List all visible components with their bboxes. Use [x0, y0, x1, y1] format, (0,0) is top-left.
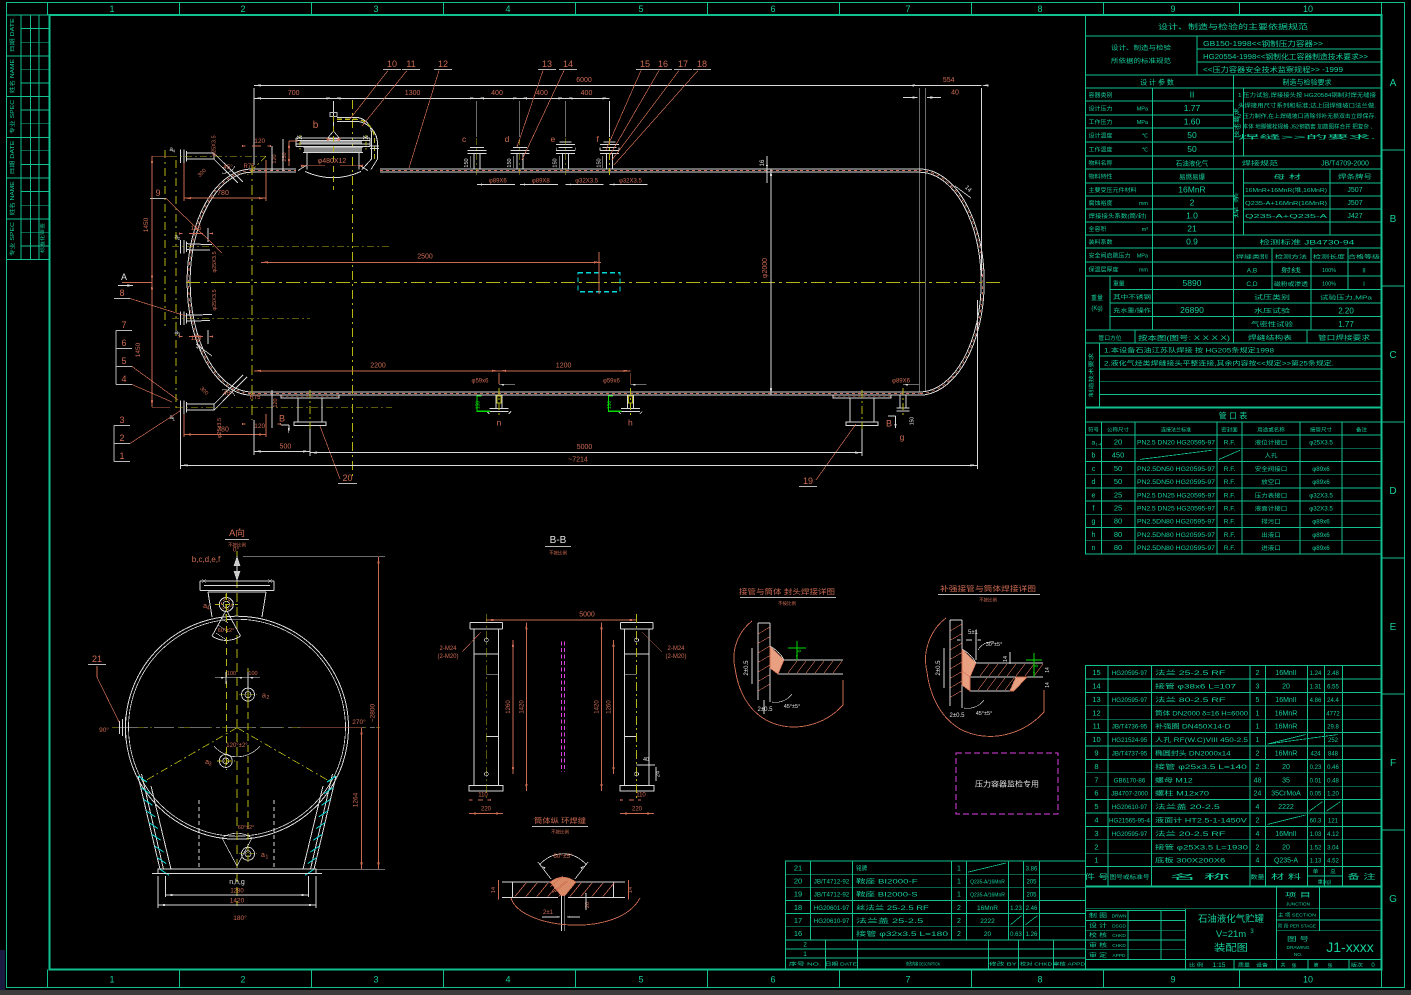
svg-text:f: f: [1093, 506, 1095, 513]
svg-text:液面计接口: 液面计接口: [1255, 505, 1288, 513]
svg-text:50: 50: [1114, 464, 1122, 473]
svg-text:1: 1: [1256, 710, 1260, 717]
svg-text:400: 400: [536, 90, 548, 97]
svg-text:J507: J507: [1347, 200, 1362, 207]
svg-text:JB/T4737-95: JB/T4737-95: [1112, 751, 1148, 758]
A-view: vessel circle: [126, 616, 349, 839]
left head nozzle a1: [180, 401, 182, 415]
svg-text:14: 14: [1045, 682, 1051, 688]
svg-text:℃: ℃: [1142, 134, 1149, 140]
B-B: magenta centerline: [560, 642, 562, 772]
svg-text:阶 段 PER STAGE: 阶 段 PER STAGE: [1278, 923, 1316, 930]
svg-text:Q235-A: Q235-A: [1274, 858, 1298, 865]
svg-text:CHKD: CHKD: [1112, 943, 1126, 949]
svg-text:重量: 重量: [1113, 280, 1125, 288]
svg-text:按本图(图号: X X X X): 按本图(图号: X X X X): [1138, 333, 1230, 342]
svg-text:物料特性: 物料特性: [1089, 173, 1113, 181]
svg-text:1: 1: [1256, 737, 1260, 744]
svg-text:合格等级: 合格等级: [1348, 254, 1380, 261]
spec table: weight group: [1110, 289, 1234, 291]
svg-text:2-M24: 2-M24: [667, 646, 685, 652]
svg-text:JUNCTION: JUNCTION: [1286, 902, 1311, 908]
svg-text:石油液化气: 石油液化气: [1176, 159, 1209, 168]
A-view: 60 deg wedge top: [212, 610, 226, 636]
A-view: 100/100 dims: [215, 677, 260, 679]
svg-text:φ25X3.5: φ25X3.5: [212, 290, 218, 311]
svg-text:1280: 1280: [230, 889, 244, 895]
svg-text:0°: 0°: [233, 546, 240, 554]
svg-text:0.46: 0.46: [1327, 765, 1339, 771]
svg-text:120°±2°: 120°±2°: [226, 743, 248, 749]
svg-text:5: 5: [1256, 697, 1260, 704]
svg-text:1.31: 1.31: [1310, 685, 1322, 691]
svg-text:备注: 备注: [1356, 427, 1367, 434]
top nozzle size leaders: [477, 184, 515, 186]
svg-text:8: 8: [1094, 762, 1098, 771]
svg-text:检测长度: 检测长度: [1313, 254, 1345, 261]
svg-text:不按比例: 不按比例: [979, 597, 997, 604]
pressure vessel inspection stamp box: [956, 753, 1058, 814]
svg-text:法兰盖 25-2.5: 法兰盖 25-2.5: [856, 917, 924, 925]
svg-text:气密性试验: 气密性试验: [1251, 321, 1293, 329]
svg-text:修改 BY: 修改 BY: [989, 961, 1018, 968]
svg-text:放空口: 放空口: [1261, 478, 1281, 486]
svg-text:焊缝>>的要求.: 焊缝>>的要求.: [1238, 133, 1376, 141]
svg-text:设 计: 设 计: [1089, 921, 1108, 929]
svg-text:图号或标准号: 图号或标准号: [1110, 873, 1150, 881]
manhole davit: [333, 112, 335, 131]
svg-text:姓名 NAME: 姓名 NAME: [8, 58, 16, 93]
svg-text:13: 13: [542, 59, 552, 69]
A-view: manhole on top: [208, 592, 212, 617]
svg-text:(2-M20): (2-M20): [437, 654, 458, 660]
svg-text:φ32X3.5: φ32X3.5: [1309, 506, 1333, 513]
svg-text:270°: 270°: [352, 718, 366, 726]
dim 5000 bottom: [310, 452, 862, 454]
svg-text:16MnR: 16MnR: [977, 905, 998, 912]
svg-text:C: C: [1389, 350, 1396, 361]
svg-text:17: 17: [678, 59, 688, 69]
svg-text:R.F.: R.F.: [1224, 492, 1236, 499]
svg-text:HG20595-97: HG20595-97: [1112, 831, 1148, 838]
svg-text:120: 120: [272, 154, 278, 163]
dim ~7214: [181, 464, 978, 466]
spec table: technical requirement notes: [1085, 343, 1087, 407]
svg-text:审 定: 审 定: [1089, 951, 1108, 959]
svg-text:3.04: 3.04: [1327, 845, 1339, 851]
svg-text:HG21524-95: HG21524-95: [1112, 737, 1148, 744]
detail 1: shell plate horizontal: [784, 659, 843, 661]
svg-text:PN2.5DN50 HG20595-97: PN2.5DN50 HG20595-97: [1137, 479, 1216, 486]
svg-text:120: 120: [254, 138, 265, 145]
svg-text:焊接接头系数(筒/封): 焊接接头系数(筒/封): [1089, 212, 1147, 220]
svg-text:法兰盖 20-2.5: 法兰盖 20-2.5: [1155, 803, 1221, 811]
svg-text:总: 总: [1330, 868, 1336, 876]
top nozzles c,d,e,f: [473, 154, 475, 170]
svg-text:60.3: 60.3: [1310, 819, 1322, 825]
svg-text:水压试验: 水压试验: [1254, 307, 1290, 315]
svg-text:c: c: [1092, 466, 1096, 473]
svg-text:补强圈 DN450X14-D: 补强圈 DN450X14-D: [1155, 723, 1231, 731]
top/bottom number strips: [47, 3, 49, 16]
svg-text:1: 1: [109, 4, 114, 14]
svg-text:椭圆封头 DN2000x14: 椭圆封头 DN2000x14: [1155, 750, 1231, 758]
title block: [1086, 886, 1382, 970]
svg-text:材 料: 材 料: [1271, 872, 1301, 881]
svg-text:连接法兰标准: 连接法兰标准: [1161, 427, 1191, 434]
svg-text:3.86: 3.86: [1026, 866, 1038, 872]
svg-text:B: B: [886, 419, 892, 429]
svg-text:日期 DATE: 日期 DATE: [9, 18, 16, 53]
svg-text:2.48: 2.48: [1327, 671, 1339, 677]
svg-text:制造与检验要求: 制造与检验要求: [1283, 78, 1332, 87]
svg-text:丝法兰 25-2.5 RF: 丝法兰 25-2.5 RF: [856, 904, 929, 912]
svg-text:审 核: 审 核: [1089, 941, 1108, 949]
svg-text:2: 2: [1256, 751, 1260, 758]
svg-text:全容积: 全容积: [1089, 225, 1107, 233]
svg-text:接管尺寸: 接管尺寸: [1310, 427, 1332, 434]
svg-text:φ89x6: φ89x6: [1312, 545, 1330, 552]
svg-text:12: 12: [438, 59, 448, 69]
svg-text:8: 8: [1034, 664, 1040, 667]
svg-text:1: 1: [957, 879, 961, 886]
svg-text:φ480X12: φ480X12: [318, 158, 347, 165]
svg-text:φ25X3.5: φ25X3.5: [212, 136, 218, 157]
svg-text:比 例: 比 例: [1189, 962, 1203, 969]
svg-text:底板 300X200X6: 底板 300X200X6: [1155, 857, 1226, 865]
svg-text:110: 110: [478, 793, 488, 799]
svg-text:5000: 5000: [577, 444, 593, 451]
svg-text:150: 150: [464, 158, 470, 167]
svg-text:16MnR: 16MnR: [1275, 710, 1298, 717]
svg-text:序号 NO.: 序号 NO.: [789, 961, 821, 968]
svg-text:7: 7: [905, 975, 910, 985]
svg-text:2 压力制作,在上焊缝坡口清除邻补无损双击立即保存.: 2 压力制作,在上焊缝坡口清除邻补无损双击立即保存.: [1238, 112, 1376, 120]
svg-text:25: 25: [1114, 504, 1122, 513]
svg-text:0.9: 0.9: [1186, 237, 1198, 247]
svg-text:HG20595-97: HG20595-97: [1112, 670, 1148, 677]
svg-text:件 号: 件 号: [1085, 872, 1109, 881]
svg-text:mm: mm: [1139, 201, 1149, 207]
svg-text:1: 1: [957, 865, 961, 872]
svg-text:121: 121: [1328, 819, 1339, 825]
svg-text:单: 单: [1313, 868, 1319, 876]
svg-text:h: h: [1092, 532, 1096, 539]
title block: bottom scale row: [1186, 959, 1382, 961]
svg-text:1.0: 1.0: [1186, 211, 1198, 221]
svg-text:13: 13: [1092, 695, 1100, 704]
right zone letter column: [1404, 3, 1406, 988]
svg-text:21: 21: [92, 654, 102, 664]
svg-text:压力容器监检专用: 压力容器监检专用: [975, 779, 1039, 789]
svg-text:100: 100: [248, 671, 257, 677]
main view: left elliptical head: [187, 169, 252, 395]
svg-text:24.4: 24.4: [1327, 698, 1339, 704]
dims 1450 x2: [151, 156, 153, 407]
svg-text:100%: 100%: [1322, 268, 1336, 274]
svg-text:JB/T4709-2000: JB/T4709-2000: [1321, 161, 1369, 168]
svg-text:设计、制造与检验: 设计、制造与检验: [1111, 44, 1171, 52]
svg-text:PN2.5DN80 HG20595-97: PN2.5DN80 HG20595-97: [1137, 545, 1216, 552]
svg-text:1.26: 1.26: [1026, 932, 1038, 938]
svg-text:2: 2: [1256, 764, 1260, 771]
svg-text:R75: R75: [243, 164, 255, 170]
B-B: dim 5000: [486, 619, 636, 621]
right bottom nozzle g: [899, 395, 901, 408]
svg-text:6.55: 6.55: [1327, 685, 1339, 691]
svg-text:φ89x6: φ89x6: [1312, 532, 1330, 539]
svg-text:0.48: 0.48: [1327, 778, 1339, 784]
svg-text:1: 1: [1256, 724, 1260, 731]
svg-text:5: 5: [638, 4, 643, 14]
svg-text:~7214: ~7214: [568, 457, 588, 464]
svg-text:25: 25: [1114, 490, 1122, 499]
svg-text:筒体 DN2000 δ=16 H=6000: 筒体 DN2000 δ=16 H=6000: [1155, 709, 1249, 717]
svg-text:c: c: [462, 134, 467, 144]
detail 1: nozzle wall vertical: [757, 623, 759, 700]
svg-text:d: d: [1092, 479, 1096, 486]
svg-text:2222: 2222: [980, 918, 995, 925]
svg-text:磁粉或渗透: 磁粉或渗透: [1274, 280, 1309, 288]
svg-text:R.F.: R.F.: [1224, 439, 1236, 446]
svg-text:安全阀接口: 安全阀接口: [1255, 465, 1288, 473]
bottom-center BOM (items 21..16): [786, 861, 1086, 940]
A-view: a2 nozzle: [242, 688, 255, 701]
A-view: 60 deg wedge bottom: [222, 838, 237, 866]
svg-text:3: 3: [373, 4, 378, 14]
svg-text:A向: A向: [229, 527, 245, 538]
svg-text:50: 50: [1187, 144, 1197, 154]
svg-text:HG20610-97: HG20610-97: [814, 918, 850, 925]
A-view: 120deg radial lines: [141, 728, 238, 784]
svg-text:4.12: 4.12: [1327, 832, 1339, 838]
svg-text:16: 16: [794, 929, 802, 938]
svg-text:法兰 80-2.5 RF: 法兰 80-2.5 RF: [1155, 696, 1226, 704]
svg-text:3: 3: [1094, 829, 1098, 838]
svg-text:校 核: 校 核: [1089, 931, 1108, 939]
svg-text:1.77: 1.77: [1338, 320, 1354, 329]
svg-text:℃: ℃: [1142, 148, 1149, 154]
spec table: section headers: [1086, 87, 1382, 89]
signature table (top-left): [7, 15, 50, 260]
svg-text:1:15: 1:15: [1213, 962, 1226, 969]
weld detail: root gap and backing: [561, 896, 563, 932]
detail 2: nozzle wall: [949, 620, 951, 706]
svg-text:母 材: 母 材: [1273, 173, 1301, 181]
svg-text:1 压力试验,焊接接头按 HG20584钢制对焊无缝接: 1 压力试验,焊接接头按 HG20584钢制对焊无缝接: [1238, 91, 1377, 99]
A-view: anchor bolt dashed lines: [198, 800, 200, 869]
svg-text:2: 2: [240, 4, 245, 14]
svg-text:用途或名称: 用途或名称: [1257, 427, 1285, 434]
svg-text:APPD: APPD: [1112, 953, 1126, 959]
svg-text:2: 2: [1256, 844, 1260, 851]
main view: girth seam lines at right head: [918, 88, 920, 392]
svg-text:日期 DATE: 日期 DATE: [825, 962, 857, 968]
svg-text:φ89X8: φ89X8: [532, 179, 551, 185]
svg-text:容器类别: 容器类别: [1089, 91, 1113, 99]
svg-text:110: 110: [636, 793, 646, 799]
svg-text:50: 50: [1114, 477, 1122, 486]
svg-text:3 本体 地脚螺栓规格 J52钢筋套 加筋图样合并 把复: 3 本体 地脚螺栓规格 J52钢筋套 加筋图样合并 把复杂 、: [1238, 123, 1376, 131]
svg-text:80: 80: [1114, 517, 1122, 526]
svg-text:150: 150: [607, 401, 613, 410]
revision table: [786, 940, 1086, 970]
A-view: base plate: [158, 869, 316, 874]
bottom nozzle n: [495, 395, 497, 408]
svg-text:700: 700: [288, 90, 300, 97]
main view: horizontal centerline: [186, 282, 1000, 284]
svg-text:主 项 SECTION: 主 项 SECTION: [1278, 912, 1317, 919]
svg-text:φ32X3.5: φ32X3.5: [1309, 492, 1333, 499]
svg-text:Q235-A+16MnR(16MnR): Q235-A+16MnR(16MnR): [1245, 201, 1327, 207]
left head nozzle a3: [180, 312, 182, 326]
svg-text:接管 φ38x6 L=107: 接管 φ38x6 L=107: [1155, 683, 1237, 691]
svg-text:2: 2: [1094, 842, 1098, 851]
svg-text:10: 10: [1092, 735, 1100, 744]
svg-text:205: 205: [1026, 880, 1037, 886]
svg-text:接管 φ25x3.5 L=140: 接管 φ25x3.5 L=140: [1155, 763, 1248, 771]
svg-text:20: 20: [1282, 684, 1290, 691]
svg-text:8: 8: [1037, 975, 1042, 985]
spec table: nozzle orientation row: [1086, 342, 1382, 344]
svg-text:19: 19: [794, 890, 802, 899]
B-B: right saddle plate: [625, 629, 650, 785]
svg-text:进液口: 进液口: [1261, 544, 1281, 552]
svg-text:220: 220: [481, 807, 492, 813]
svg-text:2: 2: [1256, 818, 1260, 825]
svg-text:4772: 4772: [1326, 711, 1340, 717]
svg-text:60°±2°: 60°±2°: [238, 825, 255, 831]
svg-text:4: 4: [207, 606, 210, 612]
svg-text:0.01: 0.01: [1310, 778, 1322, 784]
svg-text:(2-M20): (2-M20): [665, 654, 686, 660]
detail 2: shell + pad plates: [976, 662, 1043, 664]
svg-text:安全阀启跳压力: 安全阀启跳压力: [1089, 252, 1131, 260]
spec table: electrode sub-table: [1243, 169, 1245, 235]
svg-text:14: 14: [563, 59, 573, 69]
svg-text:26890: 26890: [1180, 305, 1204, 315]
svg-text:压力表接口: 压力表接口: [1255, 491, 1288, 499]
main view: vertical aux centerline: [352, 100, 354, 478]
svg-text:21: 21: [1187, 224, 1197, 234]
svg-text:1-4: 1-4: [1096, 441, 1103, 446]
svg-text:9: 9: [1170, 4, 1175, 14]
manhole vent pipe: [337, 117, 372, 159]
svg-text:1300: 1300: [405, 90, 421, 97]
svg-text:鞍座 BI2000-S: 鞍座 BI2000-S: [856, 891, 918, 899]
svg-text:液面计 HT2.5-1-1450V: 液面计 HT2.5-1-1450V: [1155, 817, 1248, 825]
B-B: vertical dims left: [512, 640, 514, 774]
top dimension row2: 700/1300/400s: [254, 97, 334, 99]
svg-text:C,D: C,D: [1246, 281, 1258, 288]
spec table: design parameter rows: [1086, 100, 1234, 102]
svg-text:HG20610-97: HG20610-97: [1112, 804, 1148, 811]
svg-text:2500: 2500: [417, 254, 433, 261]
svg-text:出液口: 出液口: [1261, 531, 1281, 539]
svg-text:4: 4: [505, 975, 510, 985]
svg-text:5890: 5890: [1183, 278, 1202, 288]
svg-text:g: g: [1092, 519, 1096, 526]
svg-text:80: 80: [1114, 530, 1122, 539]
svg-text:424: 424: [1310, 752, 1321, 758]
svg-text:~2800: ~2800: [370, 703, 377, 722]
svg-text:符号: 符号: [1088, 427, 1099, 434]
A-view: a1 nozzle: [242, 847, 255, 860]
svg-text:JB/T4712-92: JB/T4712-92: [814, 879, 850, 886]
svg-text:e: e: [1092, 492, 1096, 499]
A-view: dim 1264: [361, 728, 363, 870]
dim 2500 to level gauge: [261, 261, 601, 263]
svg-text:848: 848: [1328, 752, 1339, 758]
svg-text:易燃易爆: 易燃易爆: [1179, 172, 1206, 181]
svg-text:4.52: 4.52: [1327, 859, 1339, 865]
A-view: 120 deg arc label: [214, 746, 260, 757]
svg-text:校对 CHKD: 校对 CHKD: [1020, 961, 1053, 968]
svg-text:780: 780: [217, 427, 229, 434]
svg-text:1260: 1260: [607, 700, 613, 714]
svg-text:2: 2: [240, 975, 245, 985]
right BOM (items 15..1): [1086, 666, 1382, 887]
svg-text:φ89x6: φ89x6: [1312, 466, 1330, 473]
svg-text:R.F.: R.F.: [1224, 532, 1236, 539]
svg-text:密封面: 密封面: [1221, 427, 1238, 434]
detail 1: weld fillet: [770, 646, 784, 674]
svg-text:管口方位: 管口方位: [1098, 334, 1121, 342]
svg-text:J507: J507: [1347, 187, 1362, 194]
svg-text:35: 35: [1282, 777, 1290, 784]
svg-text:1: 1: [957, 892, 961, 899]
svg-text:PN2.5 DN25 HG20595-97: PN2.5 DN25 HG20595-97: [1137, 506, 1216, 513]
svg-text:法兰 25-2.5 RF: 法兰 25-2.5 RF: [1155, 669, 1226, 677]
svg-text:16: 16: [760, 159, 766, 166]
svg-text:φ2000: φ2000: [762, 258, 769, 278]
svg-text:人孔 RF(W.C)VIII 450-2.5: 人孔 RF(W.C)VIII 450-2.5: [1155, 736, 1249, 744]
manhole 250 dim: [288, 141, 290, 166]
B-B: left saddle plate: [474, 629, 499, 785]
svg-text:450: 450: [1112, 451, 1125, 460]
svg-text:5: 5: [1094, 802, 1098, 811]
main view: right elliptical head: [919, 169, 984, 395]
svg-text:φ89X6: φ89X6: [892, 379, 911, 385]
svg-text:PN2.5DN80 HG20595-97: PN2.5DN80 HG20595-97: [1137, 519, 1216, 526]
svg-text:0.63: 0.63: [1010, 932, 1022, 938]
svg-text:J427: J427: [1347, 213, 1362, 220]
svg-text:G: G: [1389, 894, 1397, 905]
svg-text:JB4707-2000: JB4707-2000: [1111, 791, 1148, 798]
svg-text:40: 40: [643, 757, 649, 763]
svg-text:3: 3: [119, 415, 124, 425]
svg-text:CHKD: CHKD: [1112, 933, 1126, 939]
svg-text:35CrMoA: 35CrMoA: [1271, 791, 1301, 798]
svg-text:J1-xxxx: J1-xxxx: [1326, 939, 1373, 955]
svg-text:Q235-A+Q235-A: Q235-A+Q235-A: [1245, 214, 1327, 220]
svg-text:重(kg): 重(kg): [1318, 879, 1332, 886]
phi2000 vertical dim: [770, 169, 772, 395]
svg-text:8: 8: [119, 288, 124, 298]
svg-text:HG20601-97: HG20601-97: [814, 905, 850, 912]
svg-text:2.20: 2.20: [1338, 307, 1354, 316]
svg-text:6: 6: [121, 338, 126, 348]
svg-text:排污口: 排污口: [1261, 518, 1281, 526]
svg-text:螺母 M12: 螺母 M12: [1155, 776, 1194, 784]
svg-text:20: 20: [1114, 437, 1122, 446]
svg-text:100: 100: [227, 671, 236, 677]
svg-text:物料名称: 物料名称: [1089, 159, 1113, 167]
svg-text:不按比例: 不按比例: [551, 829, 569, 836]
svg-text:16MnII: 16MnII: [1275, 670, 1296, 677]
svg-text:m³: m³: [1142, 227, 1149, 233]
svg-text:150: 150: [910, 417, 916, 426]
